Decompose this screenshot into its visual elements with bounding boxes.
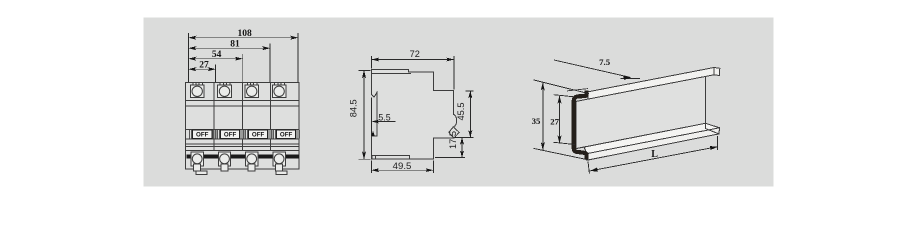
svg-text:OFF: OFF bbox=[196, 132, 209, 139]
svg-text:27: 27 bbox=[199, 61, 209, 71]
svg-text:5.5: 5.5 bbox=[378, 112, 390, 122]
svg-text:81: 81 bbox=[230, 40, 240, 50]
svg-text:L: L bbox=[651, 149, 658, 160]
svg-text:35: 35 bbox=[532, 116, 541, 126]
svg-text:17.5: 17.5 bbox=[448, 131, 458, 149]
svg-text:84.5: 84.5 bbox=[349, 99, 359, 117]
svg-text:45.5: 45.5 bbox=[456, 103, 466, 121]
svg-text:108: 108 bbox=[237, 29, 252, 39]
svg-text:54: 54 bbox=[212, 50, 222, 60]
svg-text:49.5: 49.5 bbox=[393, 161, 412, 172]
svg-text:27: 27 bbox=[550, 116, 559, 126]
svg-text:7.5: 7.5 bbox=[599, 57, 611, 67]
svg-text:72: 72 bbox=[410, 49, 420, 59]
